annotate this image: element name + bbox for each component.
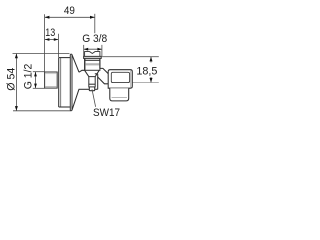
handle box inner top face bbox=[111, 72, 129, 82]
extension line bottom of 18,5 bbox=[133, 82, 159, 84]
valve body bottom edge left bbox=[79, 88, 90, 90]
seat stub below body bbox=[89, 87, 94, 91]
G 1/2 wall thread block bbox=[45, 72, 58, 88]
thread size label G 1/2 (rotated) bbox=[23, 64, 35, 90]
outlet left edge to body bbox=[84, 58, 86, 70]
outlet nut line bbox=[85, 59, 100, 61]
extension line right of G 3/8 bbox=[101, 45, 103, 56]
extension line top of 18,5 bbox=[101, 56, 158, 58]
svg-text:49: 49 bbox=[64, 5, 75, 17]
extension line left of G 3/8 bbox=[83, 45, 85, 56]
funnel right bbox=[95, 70, 99, 76]
rosette bell bottom edge bbox=[59, 106, 71, 108]
dimension 18,5 text bbox=[136, 65, 157, 77]
dimension G 3/8 line with arrows bbox=[84, 48, 102, 50]
svg-text:G 3/8: G 3/8 bbox=[82, 33, 107, 45]
dimension 13 text bbox=[45, 27, 55, 39]
wrench size label SW17 bbox=[93, 107, 120, 119]
bonnet upper 45 line bbox=[100, 68, 108, 73]
outlet thread band bbox=[85, 63, 99, 65]
dimension O 54 vertical line with arrows bbox=[15, 54, 17, 111]
handle box outer bbox=[108, 70, 132, 89]
extension line right of 13 (bell rim) bbox=[57, 34, 59, 57]
cone behind disc bottom bbox=[72, 89, 79, 110]
extension line bottom of O 54 bbox=[13, 110, 72, 112]
handle skirt bbox=[110, 88, 129, 101]
diameter label O 54 (rotated) bbox=[6, 68, 18, 91]
bonnet lower 45 line bbox=[98, 77, 109, 84]
outlet nut section bbox=[85, 58, 100, 70]
flange disc O54 bbox=[70, 54, 72, 110]
extension line top of O 54 bbox=[13, 53, 70, 55]
valve body bottom edge right bbox=[95, 88, 98, 90]
valve seat box SW17 bbox=[89, 77, 95, 87]
SW17 leader line bbox=[92, 89, 96, 107]
thread root line top bbox=[45, 73, 57, 75]
thread root line bottom bbox=[45, 86, 57, 88]
thread size label G 3/8 bbox=[82, 33, 107, 45]
valve body right edge bbox=[97, 74, 99, 90]
dimension G 1/2 vertical line with arrows bbox=[35, 72, 37, 88]
handle skirt inner line bbox=[112, 96, 127, 98]
rosette bell left face bbox=[58, 58, 60, 107]
extension line wall face (left of 49 and 13) bbox=[44, 14, 46, 72]
body shoulder right horizontal bbox=[95, 73, 98, 75]
G 3/8 outlet thread bbox=[85, 52, 100, 57]
svg-text:18,5: 18,5 bbox=[136, 65, 157, 77]
dimension 18,5 arrows and stubs bbox=[150, 57, 152, 63]
funnel left bbox=[85, 70, 89, 76]
dimension 13 line with arrows bbox=[45, 39, 58, 41]
extension line bottom of G 1/2 bbox=[33, 87, 45, 89]
seat box inner line bbox=[89, 83, 95, 85]
dimension 49 text bbox=[64, 5, 75, 17]
cone behind disc top bbox=[72, 55, 79, 72]
outlet right edge to bonnet bbox=[99, 58, 101, 68]
rosette bell inner face line bbox=[60, 58, 62, 107]
extension line right of 49 bbox=[94, 14, 96, 33]
svg-text:13: 13 bbox=[45, 27, 55, 39]
svg-text:Ø 54: Ø 54 bbox=[6, 68, 18, 91]
extension line top of G 1/2 bbox=[33, 71, 45, 73]
rosette bell top edge bbox=[59, 57, 71, 59]
outlet collar bbox=[84, 56, 102, 58]
handle box inner right edge bbox=[130, 71, 132, 88]
dimension 49 line with arrows bbox=[45, 16, 95, 18]
svg-text:G 1/2: G 1/2 bbox=[23, 64, 35, 90]
valve body top shoulder bbox=[79, 70, 85, 72]
svg-text:SW17: SW17 bbox=[93, 107, 120, 119]
